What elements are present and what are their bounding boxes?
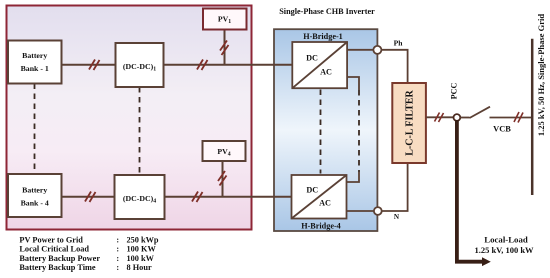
wire: PV4 stem <box>222 161 224 197</box>
wire: phase output to filter <box>347 50 408 83</box>
slash marks on PV1 stem <box>220 41 229 56</box>
svg-text:L-C-L FILTER: L-C-L FILTER <box>404 89 415 155</box>
svg-text:VCB: VCB <box>493 125 511 134</box>
wire: AC chain from bridge 1 to bridge 4 <box>347 77 359 90</box>
svg-text:Battery: Battery <box>22 186 47 195</box>
svg-text:100 kW: 100 kW <box>127 254 155 263</box>
svg-text:Battery Backup Time: Battery Backup Time <box>19 263 96 272</box>
H-bridge 1 DC/AC converter <box>292 42 347 88</box>
svg-text:Local Critical Load: Local Critical Load <box>19 245 89 254</box>
wire: VCB to grid <box>490 117 533 119</box>
svg-text:Bank - 1: Bank - 1 <box>21 64 49 73</box>
wire: filter to PCC <box>426 116 454 118</box>
PV array 1 <box>203 9 247 30</box>
svg-text:AC: AC <box>320 68 332 77</box>
svg-text::: : <box>116 245 119 254</box>
svg-text:Single-Phase CHB Inverter: Single-Phase CHB Inverter <box>279 7 375 16</box>
dashed link: DC-DC converters 2..3 <box>139 87 141 175</box>
slash marks on VCB wire <box>514 112 523 123</box>
svg-text:N: N <box>394 213 400 221</box>
svg-text:H-Bridge-1: H-Bridge-1 <box>303 32 343 41</box>
slash marks on lower bus (battery side) <box>85 192 96 203</box>
DC-DC converter 1 <box>116 43 164 87</box>
svg-text:DC: DC <box>306 54 318 63</box>
wire: PV1 stem <box>224 30 226 65</box>
svg-text::: : <box>116 235 119 244</box>
battery bank 4 <box>8 174 62 217</box>
wire: lower DC bus <box>62 196 292 198</box>
slash marks on filter-PCC wire <box>435 113 444 123</box>
svg-text:PCC: PCC <box>450 83 459 100</box>
svg-text:(DC-DC)4: (DC-DC)4 <box>123 194 156 205</box>
svg-text:PV Power to Grid: PV Power to Grid <box>19 235 83 244</box>
slash marks on upper bus (battery side) <box>89 60 100 71</box>
svg-text:Battery Backup Power: Battery Backup Power <box>19 254 100 263</box>
slash marks on PV4 stem <box>218 171 227 186</box>
arrowhead local load <box>482 257 491 266</box>
DC stage enclosure (battery + PV) <box>7 6 252 230</box>
slash marks on upper bus (PV side) <box>197 60 208 71</box>
svg-text:DC: DC <box>306 186 318 195</box>
svg-text:1.25 kV, 100 kW: 1.25 kV, 100 kW <box>474 245 534 255</box>
svg-text:AC: AC <box>319 198 331 207</box>
svg-text:Local-Load: Local-Load <box>484 234 528 244</box>
svg-text::: : <box>116 254 119 263</box>
L-C-L filter <box>392 83 426 163</box>
svg-text:1.25 kV, 50 Hz, Single-Phase G: 1.25 kV, 50 Hz, Single-Phase Grid <box>536 14 546 136</box>
dashed link: battery banks 2..3 <box>34 84 36 175</box>
wire: neutral return to filter <box>347 163 408 211</box>
svg-text:(DC-DC)1: (DC-DC)1 <box>123 62 156 73</box>
svg-text::: : <box>116 263 119 272</box>
local load feeder (thick) <box>457 120 484 262</box>
svg-text:H-Bridge-4: H-Bridge-4 <box>301 221 341 230</box>
svg-text:8 Hour: 8 Hour <box>127 263 152 272</box>
svg-text:Bank - 4: Bank - 4 <box>21 199 49 208</box>
wire: upper DC bus <box>62 64 293 66</box>
battery bank 1 <box>8 41 62 84</box>
PV array 4 <box>203 141 246 161</box>
svg-text:100 KW: 100 KW <box>127 245 157 254</box>
grid bus bar <box>531 39 534 195</box>
H-bridge 4 DC/AC converter <box>292 175 347 219</box>
slash marks on lower bus (PV side) <box>192 192 203 203</box>
node N <box>374 207 382 215</box>
svg-text:Battery: Battery <box>22 51 47 60</box>
svg-text:250 kWp: 250 kWp <box>127 235 159 244</box>
DC-DC converter 4 <box>115 175 165 219</box>
CHB inverter enclosure <box>274 29 377 231</box>
node Ph <box>373 46 381 54</box>
switch blade at PCC <box>460 117 469 119</box>
dashed link: H-bridges 2..3 (dc side) <box>320 90 322 174</box>
svg-text:Ph: Ph <box>394 39 404 48</box>
node PCC <box>454 114 461 121</box>
